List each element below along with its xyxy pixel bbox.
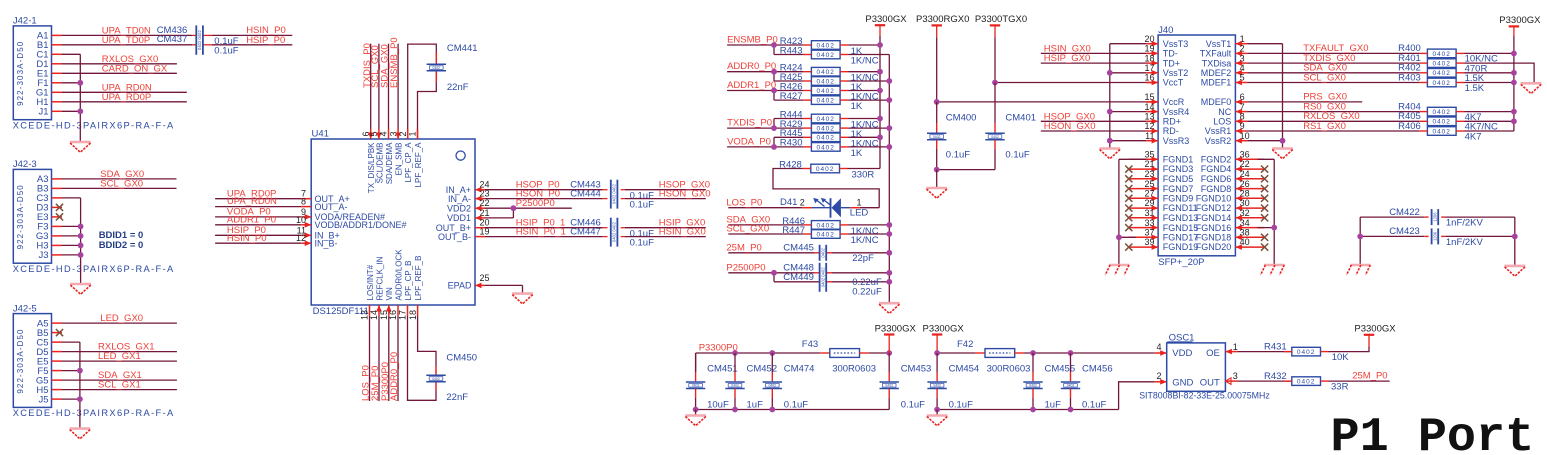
- svg-text:0402 0402: 0402 0402: [612, 222, 617, 242]
- no-connect pin 39: [1125, 244, 1132, 251]
- wire CM422 net: [1360, 216, 1424, 218]
- svg-text:LPF_REF_A: LPF_REF_A: [414, 142, 423, 188]
- no-connect B5: [56, 329, 63, 336]
- power P3300GX: [875, 25, 885, 36]
- svg-text:CM422: CM422: [1389, 207, 1420, 218]
- resistor R403 1.5K: [1427, 78, 1456, 87]
- svg-text:FGND9: FGND9: [1163, 194, 1194, 204]
- junction: [1511, 51, 1517, 57]
- svg-text:LPF_CP_A: LPF_CP_A: [404, 142, 413, 183]
- junction: [877, 134, 883, 140]
- svg-text:UPA_TD0P: UPA_TD0P: [102, 35, 150, 46]
- svg-text:1K/NC: 1K/NC: [851, 56, 879, 67]
- capacitor CM450 22nF: [426, 375, 445, 382]
- wire SDA_GX0 to U41 pin 4: [388, 44, 390, 129]
- svg-text:EPAD: EPAD: [448, 281, 472, 291]
- wire ground to OSC1 GND pin 2: [1119, 382, 1155, 410]
- power P3300GX: [1364, 335, 1374, 347]
- svg-text:CM454: CM454: [949, 363, 980, 374]
- wire CM441 to U41 pin 1: [435, 71, 437, 82]
- svg-text:D41: D41: [780, 197, 797, 208]
- svg-text:ADDR0/LOCK: ADDR0/LOCK: [394, 249, 403, 301]
- wire R406 to rail: [1464, 130, 1514, 132]
- svg-text:P3300RGX0: P3300RGX0: [916, 14, 969, 25]
- wire FGND left rail: [1119, 158, 1146, 160]
- wire P3300GX to F42: [937, 352, 975, 354]
- svg-text:922-303A-D50: 922-303A-D50: [16, 184, 25, 249]
- svg-text:U41: U41: [312, 129, 329, 140]
- wire HSIN_P0 to U41 pin 12: [215, 242, 301, 244]
- svg-text:VDD1: VDD1: [447, 213, 471, 223]
- svg-text:CM441: CM441: [447, 43, 478, 54]
- junction: [877, 69, 883, 75]
- wire ground rail J42-5: [62, 341, 80, 343]
- svg-text:16: 16: [388, 310, 398, 320]
- wire UPA_RD0N to U41 pin 8: [215, 206, 301, 208]
- svg-text:1K/NC: 1K/NC: [851, 235, 879, 246]
- svg-text:TD-: TD-: [1163, 49, 1178, 59]
- svg-text:0402: 0402: [816, 52, 834, 59]
- svg-text:0402: 0402: [991, 135, 999, 139]
- junction: [886, 78, 892, 84]
- svg-text:IN_B-: IN_B-: [315, 238, 338, 248]
- svg-text:0402 0402: 0402 0402: [821, 267, 826, 287]
- wire VccT to J40 pin 16: [995, 82, 1146, 84]
- wire CM422/423 right to ground: [1514, 217, 1516, 265]
- wire U41 pin 2 to CM441: [408, 44, 437, 139]
- svg-text:1: 1: [408, 131, 418, 136]
- junction: [1030, 407, 1036, 413]
- wire rail P3300GX inner: [879, 36, 881, 169]
- wire cap commons to ground: [937, 169, 995, 171]
- junction: [771, 144, 777, 150]
- capacitor CM443 / CM444: [611, 180, 618, 209]
- wire SCL_GX0: [728, 233, 803, 235]
- svg-text:13: 13: [360, 310, 370, 320]
- svg-text:22nF: 22nF: [446, 392, 468, 403]
- svg-text:0402: 0402: [816, 166, 834, 173]
- wire P3300GX rail right: [1513, 36, 1515, 131]
- wire LOS_P0 U41 pin 13: [369, 305, 371, 316]
- junction: [732, 350, 738, 356]
- junction: [877, 42, 883, 48]
- junction: [1512, 234, 1518, 240]
- svg-text:1.5K: 1.5K: [1465, 83, 1485, 94]
- svg-text:1uF: 1uF: [1045, 399, 1062, 410]
- svg-text:4: 4: [379, 131, 389, 136]
- svg-text:CM445: CM445: [783, 243, 814, 254]
- wire RXLOS_GX1: [62, 351, 177, 353]
- svg-text:IN_A-: IN_A-: [448, 194, 471, 204]
- svg-text:SDA/DEMA: SDA/DEMA: [385, 142, 394, 184]
- junction: [934, 99, 940, 105]
- wire HSON_P0: [475, 198, 485, 200]
- svg-text:VODB/ADDR1/DONE#: VODB/ADDR1/DONE#: [315, 220, 407, 230]
- wire HSOP_GX0: [1041, 120, 1146, 122]
- svg-text:J40: J40: [1158, 25, 1173, 36]
- no-connect pin 30: [1261, 205, 1268, 212]
- svg-text:1206: 1206: [1433, 212, 1438, 222]
- svg-text:TXDIS_P0: TXDIS_P0: [727, 118, 772, 129]
- svg-text:10uF: 10uF: [707, 399, 729, 410]
- resistor R404 4K7: [1427, 107, 1456, 116]
- svg-text:TXFault: TXFault: [1200, 49, 1232, 59]
- svg-text:TXDisa: TXDisa: [1202, 58, 1232, 68]
- svg-text:SCL/DEMB: SCL/DEMB: [375, 143, 384, 184]
- svg-text:922-303A-D50: 922-303A-D50: [16, 328, 25, 393]
- wire P3300TGX0 to VccT: [994, 37, 996, 82]
- resistor R445 1K/NC: [811, 133, 840, 142]
- no-connect pin 26: [1261, 185, 1268, 192]
- wire FGND right rail: [1257, 158, 1274, 160]
- resistor R432 33R: [1292, 377, 1321, 386]
- svg-text:J1: J1: [38, 107, 48, 118]
- svg-text:HSIN_P0: HSIN_P0: [227, 233, 267, 244]
- svg-text:HSIN_GX0: HSIN_GX0: [659, 226, 706, 237]
- svg-text:F43: F43: [802, 339, 818, 350]
- ferrite bead F43 300R0603: [830, 349, 860, 358]
- svg-text:J42-3: J42-3: [13, 159, 37, 170]
- svg-text:MDEF0: MDEF0: [1201, 97, 1232, 107]
- wire 25M_P0 out: [1329, 380, 1390, 382]
- svg-text:0.1uF: 0.1uF: [1082, 399, 1106, 410]
- resistor R429 1K: [811, 124, 840, 133]
- wire 25M_P0: [728, 252, 814, 254]
- svg-text:0402: 0402: [816, 42, 834, 49]
- svg-text:VccT: VccT: [1163, 78, 1184, 88]
- junction: [886, 231, 892, 237]
- svg-text:1nF/2KV: 1nF/2KV: [1446, 237, 1484, 248]
- svg-text:300R0603: 300R0603: [987, 363, 1031, 374]
- capacitor CM452 1uF: [734, 353, 736, 372]
- wire UPA_RD0P: [62, 101, 187, 103]
- no-connect pin 23: [1125, 175, 1132, 182]
- svg-text:18: 18: [408, 310, 418, 320]
- wire F42 to OSC1 VDD: [1014, 352, 1024, 354]
- svg-text:ADDR0_P0: ADDR0_P0: [727, 61, 776, 72]
- no-connect D3: [56, 204, 63, 211]
- svg-text:R432: R432: [1264, 371, 1287, 382]
- wire CM450 to U41 pin 17: [435, 382, 437, 391]
- svg-text:0402: 0402: [816, 98, 834, 105]
- svg-text:0402: 0402: [1432, 51, 1450, 58]
- wire OUT via R432: [1225, 380, 1237, 382]
- junction: [1030, 350, 1036, 356]
- svg-text:CM400: CM400: [946, 113, 977, 124]
- wire CM423 net: [1360, 235, 1424, 237]
- capacitor CM451 10uF: [695, 353, 697, 372]
- junction: [769, 407, 775, 413]
- svg-text:CM474: CM474: [784, 363, 815, 374]
- ground J42-3: [70, 284, 91, 294]
- no-connect pin 28: [1261, 195, 1268, 202]
- svg-text:1nF/2KV: 1nF/2KV: [1446, 218, 1484, 229]
- junction: [934, 350, 940, 356]
- junction: [1511, 109, 1517, 115]
- connector J42-3: [13, 169, 51, 263]
- wire ADDR1_P0: [727, 90, 774, 92]
- junction: [732, 407, 738, 413]
- svg-text:FGND12: FGND12: [1196, 203, 1232, 213]
- svg-text:VccR: VccR: [1163, 97, 1185, 107]
- junction: [877, 116, 883, 122]
- svg-text:VssT1: VssT1: [1206, 39, 1232, 49]
- wire P2500P0: [728, 272, 774, 274]
- junction: [886, 350, 892, 356]
- junction: [886, 250, 892, 256]
- wire SCL_GX0 to U41 pin 5: [378, 44, 380, 129]
- svg-text:0402 0402: 0402 0402: [197, 30, 202, 50]
- svg-text:J42-5: J42-5: [13, 303, 37, 314]
- resistor R444 1K/NC: [811, 114, 840, 123]
- wire PRS_GX0: [1247, 101, 1362, 103]
- wire R431 to P3300GX: [1329, 347, 1370, 352]
- wire CARD_ON_GX: [62, 72, 177, 74]
- svg-text:0.1uF: 0.1uF: [214, 45, 238, 56]
- chassis ground FGND left: [1105, 265, 1129, 275]
- svg-text:HSON_GX0: HSON_GX0: [659, 188, 711, 199]
- svg-text:1206: 1206: [1433, 231, 1438, 241]
- svg-text:REFCLK_IN: REFCLK_IN: [375, 256, 384, 300]
- resistor R427 1K: [811, 96, 840, 105]
- junction: [771, 270, 777, 276]
- svg-text:25: 25: [480, 273, 490, 283]
- junction: [771, 42, 777, 48]
- polarity circle U41: [456, 151, 465, 160]
- svg-text:FGND7: FGND7: [1163, 184, 1194, 194]
- wire CM422/423 left to chassis: [1359, 217, 1361, 265]
- svg-text:FGND19: FGND19: [1163, 242, 1199, 252]
- svg-text:HSIP_P0: HSIP_P0: [246, 35, 285, 46]
- power P3300GX: [1509, 26, 1519, 36]
- svg-text:ENSMB_P0: ENSMB_P0: [389, 37, 400, 88]
- svg-text:1uF: 1uF: [747, 399, 764, 410]
- svg-text:LED_GX0: LED_GX0: [100, 313, 143, 324]
- capacitor CM456 0.1uF: [1070, 353, 1072, 372]
- resistor R430 1K: [811, 143, 840, 152]
- capacitor CM448 / CM449 0.22uF: [820, 263, 827, 292]
- junction: [77, 368, 83, 374]
- power P3300GX: [884, 335, 894, 354]
- wire UPA_RD0P to U41 pin 7: [215, 198, 301, 200]
- svg-text:J3: J3: [38, 250, 48, 261]
- resistor R446 1K/NC: [811, 221, 840, 230]
- resistor R424 1K/NC: [811, 67, 840, 76]
- chassis ground FGND right: [1261, 265, 1285, 275]
- no-connect pin 40: [1261, 244, 1268, 251]
- svg-text:SCL_GX1: SCL_GX1: [98, 380, 141, 391]
- oscillator OSC1 SIT8008: [1167, 343, 1226, 391]
- svg-text:0.1uF: 0.1uF: [1005, 150, 1029, 161]
- wire SDA_GX0: [1247, 72, 1419, 74]
- junction: [1068, 350, 1074, 356]
- svg-text:25M_P0: 25M_P0: [1352, 370, 1387, 381]
- wire SCL_GX1: [62, 389, 177, 391]
- power P3300TGX0: [990, 25, 1000, 37]
- svg-text:CM447: CM447: [570, 226, 601, 237]
- wire LED_GX1: [62, 360, 177, 362]
- svg-text:R403: R403: [1398, 72, 1421, 83]
- svg-text:LOS_P0: LOS_P0: [726, 198, 762, 209]
- svg-text:ENSMB_P0: ENSMB_P0: [727, 34, 778, 45]
- junction: [78, 243, 84, 249]
- svg-text:2: 2: [800, 197, 805, 207]
- svg-text:P3300GX: P3300GX: [922, 323, 964, 334]
- svg-text:TD+: TD+: [1163, 58, 1180, 68]
- svg-text:4K7: 4K7: [1465, 131, 1482, 142]
- svg-text:0.1uF: 0.1uF: [901, 399, 925, 410]
- svg-text:300R0603: 300R0603: [832, 363, 876, 374]
- svg-text:0402: 0402: [1432, 109, 1450, 116]
- wire TXDIS_GX0: [1247, 62, 1419, 64]
- svg-text:0402: 0402: [816, 231, 834, 238]
- wire RXLOS_GX0: [1247, 120, 1419, 122]
- svg-text:RS1_GX0: RS1_GX0: [1303, 121, 1346, 132]
- svg-text:922-303A-D50: 922-303A-D50: [16, 41, 25, 106]
- svg-text:0402: 0402: [1029, 384, 1037, 388]
- svg-text:HSIP_GX0: HSIP_GX0: [1044, 53, 1090, 64]
- capacitor CM441 22nF: [427, 64, 446, 71]
- wire HSIP_GX0: [1041, 62, 1146, 64]
- ground J40 Vss: [1099, 149, 1120, 159]
- svg-text:FGND5: FGND5: [1163, 174, 1194, 184]
- svg-text:RD-: RD-: [1163, 126, 1179, 136]
- no-connect pin 31: [1125, 214, 1132, 221]
- wire U41 pin 18 to CM450: [417, 305, 419, 316]
- svg-text:CM453: CM453: [901, 363, 932, 374]
- wire LOS_P0: [728, 207, 802, 209]
- junction: [78, 224, 84, 230]
- junction: [886, 222, 892, 228]
- svg-text:0402: 0402: [731, 384, 739, 388]
- svg-text:CM444: CM444: [570, 188, 601, 199]
- wire R428 left to LED anode: [773, 169, 879, 208]
- svg-text:0402: 0402: [816, 144, 834, 151]
- wire ADDR0_P0: [727, 71, 774, 73]
- wire RXLOS_GX0: [62, 63, 177, 65]
- wire RS1_GX0: [1247, 130, 1419, 132]
- capacitor CM474 0.1uF: [771, 353, 773, 372]
- svg-text:FGND14: FGND14: [1196, 213, 1232, 223]
- capacitor CM446 / CM447: [611, 218, 618, 247]
- junction: [1511, 80, 1517, 86]
- svg-text:0402: 0402: [1432, 128, 1450, 135]
- capacitor CM453 0.1uF: [888, 353, 890, 372]
- svg-text:J42-1: J42-1: [13, 16, 37, 27]
- wire P3300P0 rail: [696, 352, 821, 354]
- junction: [886, 97, 892, 103]
- wire UPA_TD0P: [62, 44, 192, 46]
- svg-text:FGND13: FGND13: [1163, 213, 1199, 223]
- svg-text:VssR3: VssR3: [1163, 136, 1190, 146]
- wire HSIN_P0_1: [475, 236, 485, 238]
- wire VccR to J40 pin 15: [937, 101, 1146, 103]
- junction: [1116, 234, 1122, 240]
- junction: [877, 88, 883, 94]
- wire rail NC resistors: [888, 55, 890, 303]
- svg-text:FGND15: FGND15: [1163, 223, 1199, 233]
- svg-text:0402: 0402: [1432, 70, 1450, 77]
- svg-text:VDD2: VDD2: [447, 203, 471, 213]
- resistor R405 4K7/NC: [1427, 117, 1456, 126]
- svg-text:R431: R431: [1264, 341, 1287, 352]
- wire J40 pins 1/10 to ground: [1247, 43, 1282, 45]
- svg-text:0402: 0402: [1067, 384, 1075, 388]
- svg-text:0.1uF: 0.1uF: [630, 199, 654, 210]
- svg-text:BDID2 = 0: BDID2 = 0: [99, 240, 144, 251]
- svg-text:FGND20: FGND20: [1196, 242, 1232, 252]
- svg-text:LOS/INT#: LOS/INT#: [366, 264, 375, 300]
- chassis ground CM422/423: [1347, 265, 1371, 275]
- resistor R402 1.5K: [1427, 69, 1456, 78]
- resistor R431 10K: [1292, 347, 1321, 356]
- junction: [1280, 138, 1286, 144]
- no-connect pin 32: [1261, 214, 1268, 221]
- svg-text:SCL_GX0: SCL_GX0: [1303, 72, 1346, 83]
- resistor R400 10K/NC: [1427, 49, 1456, 58]
- wire 25M_P0 U41 pin 14: [378, 305, 380, 316]
- junction: [886, 279, 892, 285]
- svg-text:CM401: CM401: [1005, 113, 1036, 124]
- ground EPAD: [512, 294, 533, 304]
- wire LED_GX0: [62, 322, 177, 324]
- junction: [78, 233, 84, 239]
- wire ADDR1_P0 to U41 pin 10: [215, 224, 301, 226]
- svg-text:CM450: CM450: [446, 352, 477, 363]
- resistor R443 1K/NC: [811, 50, 840, 59]
- svg-text:LOS: LOS: [1213, 117, 1231, 127]
- junction: [1357, 234, 1363, 240]
- no-connect pin 24: [1261, 175, 1268, 182]
- svg-text:1: 1: [1233, 342, 1238, 352]
- svg-text:0.1uF: 0.1uF: [946, 150, 970, 161]
- svg-text:0402: 0402: [432, 377, 440, 381]
- wire P3300RGX0 to VccR: [936, 37, 938, 102]
- svg-text:1K: 1K: [851, 101, 863, 112]
- svg-text:R406: R406: [1398, 121, 1421, 132]
- wire UPA_TD0N: [62, 34, 192, 36]
- svg-text:P3300GX: P3300GX: [865, 14, 907, 25]
- wire ADDR0_P0 U41 pin 16: [397, 305, 399, 316]
- wire OE pullup: [1225, 351, 1237, 353]
- svg-text:CM423: CM423: [1389, 226, 1420, 237]
- svg-text:FGND17: FGND17: [1163, 233, 1199, 243]
- resistor R425 1K: [811, 77, 840, 86]
- junction: [1107, 70, 1113, 76]
- ground NC rail: [879, 303, 900, 313]
- wire F43 to P3300GX node: [859, 352, 869, 354]
- svg-text:SCL_GX0: SCL_GX0: [100, 178, 143, 189]
- ground R401: [1521, 83, 1542, 93]
- svg-text:VDD: VDD: [1172, 348, 1192, 359]
- wire bottom rail section 2: [937, 409, 1119, 411]
- wire TXDIS_P0 to U41 pin 6: [370, 44, 372, 129]
- svg-text:1: 1: [857, 197, 862, 207]
- no-connect pin 29: [1125, 205, 1132, 212]
- svg-text:10: 10: [296, 215, 306, 225]
- wire UPA_RD0N: [62, 91, 187, 93]
- junction: [886, 125, 892, 131]
- svg-text:SIT8008BI-82-33E-25.00075MHz: SIT8008BI-82-33E-25.00075MHz: [1139, 391, 1270, 401]
- svg-text:RD+: RD+: [1163, 117, 1181, 127]
- junction: [771, 88, 777, 94]
- svg-text:FGND18: FGND18: [1196, 233, 1232, 243]
- svg-text:P3300GX: P3300GX: [1354, 324, 1396, 335]
- wire P3300P0 U41 pin 15: [388, 305, 390, 316]
- wire SCL_GX0: [62, 187, 177, 189]
- svg-text:VssR4: VssR4: [1163, 107, 1190, 117]
- svg-text:0402: 0402: [816, 78, 834, 85]
